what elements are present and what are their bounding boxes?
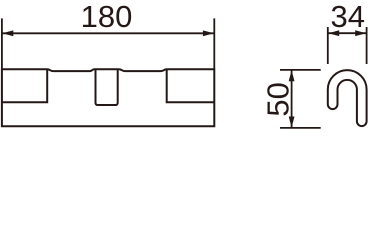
center slot xyxy=(96,69,118,105)
svg-text:180: 180 xyxy=(81,0,133,34)
dim 50 line xyxy=(291,70,293,128)
right tab inner lines xyxy=(167,69,215,102)
dim 180 extension line left xyxy=(1,18,3,68)
dim 50 extension line bottom xyxy=(280,127,321,129)
dim 34 arrowhead right xyxy=(355,30,366,36)
dim 180 extension line right xyxy=(213,18,215,68)
dim 34 extension line left xyxy=(327,27,329,64)
dim 50 extension line top xyxy=(280,69,321,71)
dim 50 arrowhead up xyxy=(289,70,295,81)
bracket front view outline xyxy=(2,69,214,126)
dim 34 line xyxy=(328,32,367,34)
svg-text:34: 34 xyxy=(331,0,365,34)
left tab inner lines xyxy=(2,69,47,102)
dim 34 arrowhead left xyxy=(328,30,339,36)
dim 50 arrowhead down xyxy=(289,117,295,128)
dim 34 extension line right xyxy=(366,27,368,64)
hook side view profile xyxy=(328,70,367,126)
dim 180 arrowhead left xyxy=(2,30,13,36)
dim 180 line xyxy=(2,32,214,34)
svg-text:50: 50 xyxy=(260,82,295,116)
dim 180 arrowhead right xyxy=(203,30,214,36)
